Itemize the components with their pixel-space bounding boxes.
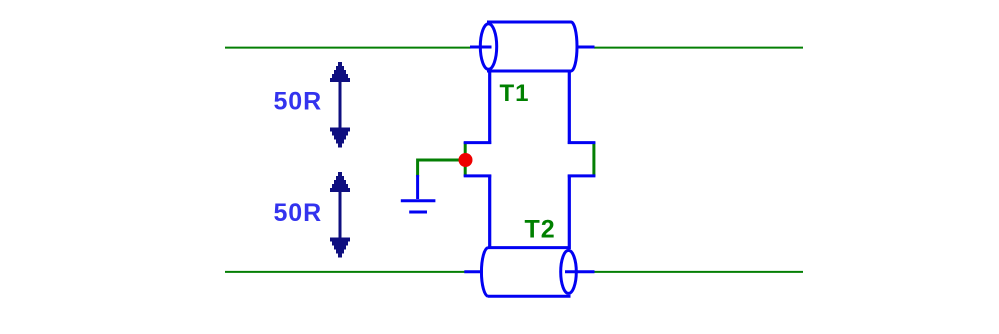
- wire: right notch vertical (T1 pin4 to T2 pin2): [592, 142, 595, 177]
- transformer T1: [464, 22, 596, 144]
- ground: [401, 175, 436, 212]
- junction node (red dot): [459, 153, 473, 167]
- wire: bottom net, right segment: [594, 271, 803, 273]
- wire: top net, right segment: [594, 47, 803, 49]
- svg-text:T1: T1: [500, 80, 530, 107]
- wire: left notch vertical (T1 pin3 to T2 pin1): [464, 142, 467, 177]
- svg-text:50R: 50R: [274, 199, 323, 227]
- svg-text:50R: 50R: [274, 87, 323, 115]
- wire: bottom net, left segment: [225, 271, 465, 273]
- port 2 impedance arrow (double-headed): [330, 172, 350, 258]
- wire: ground tap horizontal + vertical: [418, 160, 460, 177]
- svg-text:T2: T2: [525, 215, 556, 243]
- transformer T2: [464, 175, 596, 297]
- port 1 impedance arrow (double-headed): [330, 62, 350, 148]
- wire: top net, left segment: [225, 47, 471, 49]
